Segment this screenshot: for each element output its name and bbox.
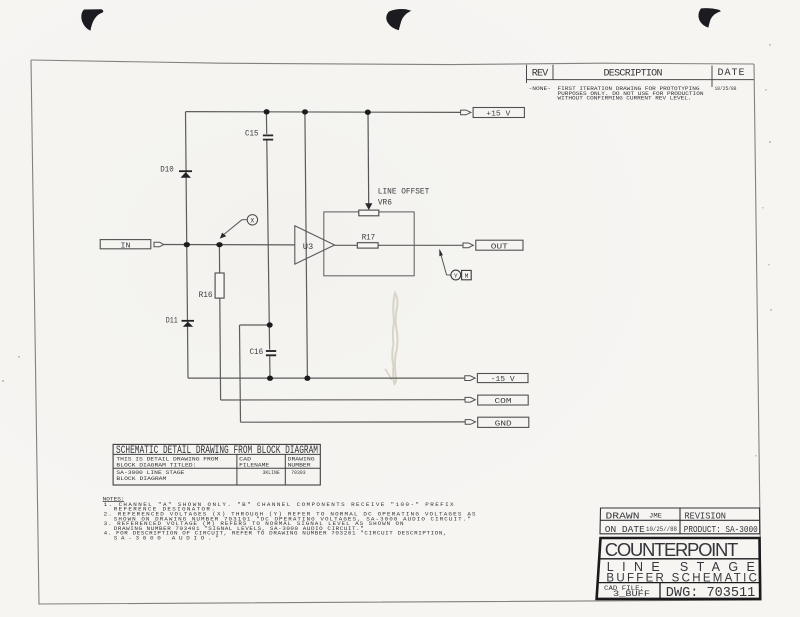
svg-text:4. FOR DESCRIPTION OF CIRCUIT: 4. FOR DESCRIPTION OF CIRCUIT, REFER TO … <box>104 530 447 537</box>
node dot -15 rail / power line <box>304 376 310 381</box>
divider under company name <box>599 558 759 560</box>
notes heading <box>103 497 125 503</box>
svg-text:R17: R17 <box>362 233 376 242</box>
detail table row divider <box>113 467 320 469</box>
svg-text:M: M <box>465 273 469 280</box>
wire left vertical branch (D10/D11) <box>186 112 189 379</box>
diode D10 <box>179 170 192 177</box>
node Y/M reference <box>439 249 471 280</box>
divider under titles <box>599 582 760 584</box>
terminal -15V pointer <box>465 376 475 381</box>
svg-text:3KLINE: 3KLINE <box>263 469 281 476</box>
node dot -15 rail / C line <box>267 376 273 381</box>
svg-text:IN: IN <box>121 242 131 250</box>
svg-text:U3: U3 <box>303 243 314 252</box>
svg-text:Y: Y <box>454 273 458 280</box>
svg-text:NUMBER: NUMBER <box>288 462 312 469</box>
wire GND jog horizontal <box>240 324 270 326</box>
node dot GND jog / C line <box>267 322 273 327</box>
detail table header divider <box>113 453 320 455</box>
capacitor C15 <box>263 134 273 141</box>
svg-text:OUT: OUT <box>491 243 508 251</box>
svg-text:-NONE-: -NONE- <box>529 85 552 92</box>
wire op-amp power vertical <box>305 112 308 379</box>
stain smudge center <box>392 293 397 384</box>
svg-text:-15 V: -15 V <box>491 376 516 384</box>
feedback module box <box>324 212 414 276</box>
svg-text:X: X <box>250 218 254 225</box>
svg-text:10/25/88: 10/25/88 <box>715 85 737 92</box>
punch hole shadow middle <box>386 9 411 30</box>
svg-text:SA-3000 AUDIO.": SA-3000 AUDIO." <box>114 535 219 542</box>
page border frame <box>31 60 754 65</box>
wire R16 branch vertical <box>219 245 220 400</box>
detail table column divider 2 <box>284 454 286 485</box>
svg-text:REVISION: REVISION <box>685 510 727 521</box>
svg-text:3_BUFF: 3_BUFF <box>613 591 650 599</box>
svg-text:DWG: 703511: DWG: 703511 <box>666 586 756 601</box>
wire VR6 wiper branch <box>367 112 370 204</box>
title block small table <box>600 508 760 534</box>
svg-text:DATE: DATE <box>718 68 745 79</box>
svg-text:DESCRIPTION: DESCRIPTION <box>604 68 663 79</box>
terminal COM pointer <box>465 397 475 402</box>
diode D11 <box>182 320 195 327</box>
svg-text:BLOCK DIAGRAM TITLED:: BLOCK DIAGRAM TITLED: <box>116 462 196 469</box>
potentiometer VR6 body <box>359 210 379 216</box>
scanner specks right margin <box>2 44 772 456</box>
capacitor C16 <box>266 350 276 357</box>
node dot top rail / power line <box>302 109 308 114</box>
terminal +15V box <box>473 108 524 118</box>
wire IN signal line <box>164 244 295 246</box>
pointer flag IN <box>154 242 164 247</box>
svg-text:+15 V: +15 V <box>486 111 511 119</box>
svg-text:FILENAME: FILENAME <box>239 462 270 469</box>
svg-text:GND: GND <box>495 420 512 428</box>
terminal GND pointer <box>465 420 475 425</box>
punch hole shadow left <box>81 9 103 31</box>
REV table header <box>527 65 754 87</box>
svg-text:LINE OFFSET: LINE OFFSET <box>378 188 430 197</box>
resistor R16 <box>215 273 224 298</box>
svg-text:WITHOUT CONFIRMING CURRENT REV: WITHOUT CONFIRMING CURRENT REV LEVEL. <box>558 95 692 102</box>
wire -15V rail <box>188 377 465 379</box>
terminal OUT pointer <box>463 243 473 248</box>
detail table outer box <box>113 444 320 485</box>
svg-text:JME: JME <box>649 512 662 519</box>
svg-text:PRODUCT: SA-3000: PRODUCT: SA-3000 <box>684 524 758 535</box>
terminal COM box <box>478 395 529 405</box>
svg-text:DRAWN: DRAWN <box>606 510 640 521</box>
svg-text:VR6: VR6 <box>378 199 392 208</box>
detail table column divider 1 <box>236 454 238 485</box>
terminal GND box <box>478 417 529 427</box>
svg-text:C15: C15 <box>245 128 259 138</box>
svg-text:R16: R16 <box>199 291 213 300</box>
arrowhead into VR6 <box>365 203 372 210</box>
svg-text:C16: C16 <box>250 347 264 357</box>
terminal OUT box <box>476 240 523 250</box>
svg-text:D11: D11 <box>166 316 178 325</box>
resistor R17 <box>357 243 378 248</box>
node dot IN / R16 branch <box>216 242 222 247</box>
svg-text:ON DATE: ON DATE <box>605 524 645 535</box>
svg-text:D10: D10 <box>160 165 174 174</box>
terminal -15V box <box>477 374 528 383</box>
wire GND line <box>241 421 466 423</box>
wire C15/C16 vertical <box>266 112 270 379</box>
node dot IN / left branch <box>184 242 190 247</box>
svg-text:70393: 70393 <box>291 469 306 476</box>
svg-text:BLOCK DIAGRAM: BLOCK DIAGRAM <box>116 475 167 482</box>
wire OUT line <box>335 244 463 246</box>
node X reference circle <box>220 215 258 239</box>
node dot top rail / C15 <box>264 109 270 114</box>
svg-text:COUNTERPOINT: COUNTERPOINT <box>605 539 739 560</box>
wire COM line <box>221 399 465 401</box>
terminal IN box <box>100 240 151 249</box>
svg-text:COM: COM <box>495 398 512 406</box>
wire top +15V rail <box>186 111 461 114</box>
divider CAD/DWG vertical <box>659 583 661 599</box>
wire GND vertical <box>240 325 241 422</box>
svg-text:10/25//88: 10/25//88 <box>646 526 677 533</box>
op-amp U3 <box>295 226 335 264</box>
node dot top rail / VR6 branch <box>365 110 371 115</box>
title block main box (thick) <box>597 538 761 599</box>
punch hole shadow right <box>698 8 721 27</box>
svg-text:REV: REV <box>532 69 549 80</box>
terminal +15V pointer <box>461 110 471 115</box>
